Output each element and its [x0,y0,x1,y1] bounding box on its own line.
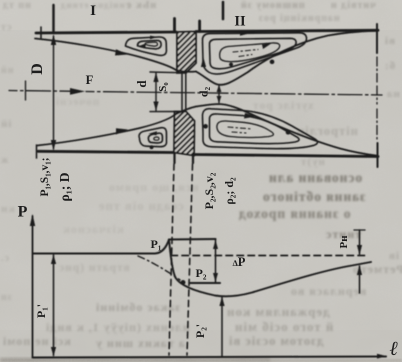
P2 level bar [190,282,220,284]
initial pressure level line [33,240,169,254]
P2' dimension line [221,297,223,357]
svg-text:P₂: P₂ [196,266,207,280]
D dimension arrow down [51,140,56,151]
P axis arrowhead [30,214,35,226]
P1' dimension line [53,255,55,356]
pipe right end tick bottom [377,143,379,167]
svg-text:D: D [29,63,46,75]
svg-text:Pн: Pн [338,235,350,249]
dP dimension vertical [215,239,217,283]
P1 peak plateau line [169,238,216,241]
upstream upper vortex [126,37,167,55]
downstream lower vortex arrows [244,113,256,119]
pipe top wall right segment [196,30,378,31]
orifice throat section line b [185,73,187,112]
downstream upper vortex [203,33,307,74]
svg-text:P₂,S₂,v₂: P₂,S₂,v₂ [202,172,216,209]
plate tick lower left [173,153,175,163]
svg-text:P₂': P₂' [193,324,207,338]
Pn top tick [354,229,365,231]
baseline arrowhead [377,354,387,359]
upstream lower vortex [139,128,166,147]
upper upstream streamline [35,39,176,71]
Pn dimension upper segment [359,230,361,254]
streamline arrow upper [115,49,128,55]
pipe bottom wall left segment [38,151,175,152]
section line II [222,2,225,19]
centerline left break tick [25,81,27,100]
svg-text:S₀: S₀ [157,82,169,92]
plate tick lower right [192,155,194,163]
svg-text:P₁: P₁ [151,237,162,251]
Pn lower arrowhead (up) [357,265,362,275]
bore bottom extension tick [150,111,186,113]
axis pressure dash-dot curve [138,256,180,280]
section line I [52,5,54,33]
upstream lower vortex arrows [149,131,158,135]
pipe right end break dash-dot [376,57,378,140]
upstream upper vortex arrows [138,44,146,49]
svg-text:P: P [18,204,28,221]
svg-text:I: I [90,3,96,19]
P1' arrow down [51,347,56,357]
svg-text:∆P: ∆P [233,255,246,269]
d dimension arrows [153,73,158,83]
svg-text:P₁': P₁' [34,304,48,318]
svg-text:P₁,S₁,v₁;: P₁,S₁,v₁; [39,157,51,196]
svg-text:ℓ: ℓ [390,338,399,360]
plate flange tick upper right [198,21,201,32]
graph baseline (l axis) [33,357,387,358]
d dimension line [155,73,157,111]
streamline through bore lower [175,107,197,116]
orifice plate upper (hatched) [177,32,196,74]
lower upstream streamline [37,115,175,146]
P2' arrow up [219,297,224,307]
svg-text:d: d [134,80,149,88]
dashed drop line left (from plate upstream face) [169,164,174,355]
bottom wall left end tick [36,145,38,158]
dP arrow up [213,240,218,249]
svg-text:F: F [86,73,94,87]
flow arrow F [70,88,85,95]
D dimension line [53,36,55,149]
upper jet boundary downstream [196,31,376,85]
bleed-through text rows (mirrored, blurred) [2,0,31,11]
orifice throat section line a [181,73,183,112]
dashed drop line right (from plate downstream face) [187,164,193,355]
Pn dimension lower segment [359,266,361,293]
svg-text:ρ₂; d₂: ρ₂; d₂ [222,177,236,205]
junction dot [181,280,186,285]
svg-text:ρ₁; D: ρ₁; D [57,172,72,201]
lower jet boundary downstream [196,104,376,156]
pipe right end tick top [376,24,378,53]
pipe top wall left segment [36,32,176,33]
dP arrow down [213,273,218,282]
pipe bottom wall right segment [193,155,378,157]
wall pressure curve after plate [169,240,371,297]
svg-text:d₂: d₂ [197,86,211,97]
downstream upper vortex arrows [201,57,206,67]
D dimension arrow up [51,35,56,46]
streamline arrow lower [116,128,128,134]
streamline through bore upper [176,70,196,72]
downstream lower vortex [203,109,318,149]
centerline F (dash-dot axis) [9,91,382,96]
graph P axis [32,216,34,357]
bore top extension tick [150,71,186,74]
orifice plate lower (hatched) [174,112,195,156]
plate flange tick upper left [173,19,176,33]
dashed recovered-pressure reference line [171,255,368,257]
P1' arrow up [51,255,56,265]
d2 dimension arrows [217,85,222,92]
top wall left end tick [40,27,42,39]
d2 dimension line [218,86,220,103]
svg-text:II: II [234,14,246,30]
Pn upper arrowhead (down) [357,245,362,255]
